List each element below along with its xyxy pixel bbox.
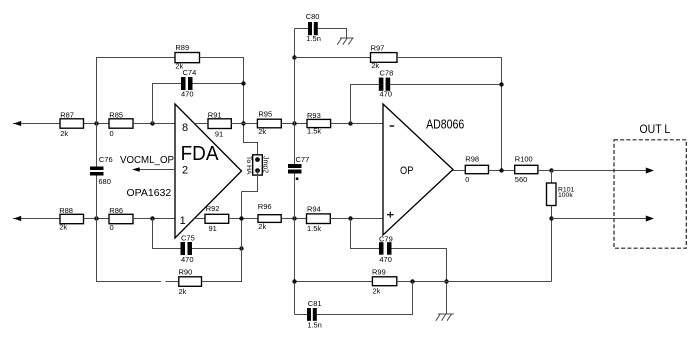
wire to AD8066 minus — [331, 123, 383, 125]
resistor R86 — [109, 206, 133, 232]
svg-text:R95: R95 — [258, 110, 272, 119]
svg-text:470: 470 — [379, 255, 392, 264]
capacitor C76 — [90, 155, 113, 186]
resistor R99 — [372, 267, 397, 295]
node junction R88/R86 — [94, 216, 98, 220]
node junction C75 drop — [150, 216, 154, 220]
svg-text:C81: C81 — [308, 299, 322, 308]
capacitor C78 — [379, 68, 393, 98]
svg-text:0: 0 — [465, 175, 469, 184]
svg-text:R93: R93 — [307, 111, 321, 120]
resistor R93 — [307, 111, 331, 136]
wire R99 right — [397, 281, 552, 283]
svg-text:FDA: FDA — [181, 142, 219, 165]
node junction C81 riser — [410, 279, 414, 283]
wire R90 left — [96, 281, 161, 283]
svg-text:C75: C75 — [181, 234, 195, 243]
svg-text:470: 470 — [181, 90, 194, 99]
svg-text:C78: C78 — [380, 68, 394, 77]
resistor R97 — [371, 43, 398, 70]
wire — [538, 170, 552, 172]
wire C78 left — [351, 85, 379, 124]
svg-text:1: 1 — [180, 215, 186, 227]
svg-text:R100: R100 — [515, 155, 533, 164]
arrow out upper — [646, 168, 654, 174]
node junction bottom vert — [239, 216, 243, 220]
wire C78 right — [390, 84, 501, 86]
wire out lower arrow — [552, 218, 649, 220]
op-amp U2 AD8066 — [383, 104, 453, 235]
svg-text:2k: 2k — [60, 129, 68, 138]
node junction R97 left — [292, 55, 296, 59]
resistor R85 — [109, 110, 133, 138]
wire R101 bottom lead — [551, 206, 553, 282]
svg-text:C76: C76 — [99, 155, 113, 164]
resistor R101 — [547, 183, 575, 206]
resistor R91 — [208, 110, 232, 138]
wire vertical x294 upper — [294, 29, 296, 165]
wire R90 left segment 2 — [166, 281, 179, 283]
node junction R98/R100 — [499, 168, 503, 172]
svg-text:100k: 100k — [558, 192, 573, 199]
svg-text:C80: C80 — [306, 12, 320, 21]
wire R91 left stub — [195, 123, 209, 125]
wire C81 left — [295, 314, 308, 316]
wire to AD8066 plus — [330, 218, 383, 220]
wire C81 right riser — [317, 282, 413, 315]
wire — [84, 218, 110, 220]
wire R92 left stub — [194, 218, 205, 220]
svg-text:OP: OP — [400, 165, 413, 177]
capacitor C81 — [307, 299, 322, 330]
arrow out lower — [646, 216, 654, 222]
svg-text:1.5n: 1.5n — [306, 34, 321, 43]
svg-text:AD8066: AD8066 — [426, 117, 464, 132]
capacitor C79 — [379, 234, 393, 264]
wire — [133, 218, 175, 220]
jumper Jmp2 — [245, 155, 268, 175]
node junction C74 drop — [150, 121, 154, 125]
svg-text:2k: 2k — [258, 222, 266, 231]
node junction C75/vert — [239, 246, 243, 250]
wire — [281, 123, 307, 125]
wire out upper arrow — [552, 170, 649, 172]
svg-text:R91: R91 — [208, 110, 222, 119]
resistor R94 — [307, 205, 331, 234]
resistor R87 — [60, 110, 84, 138]
svg-text:2k: 2k — [373, 286, 381, 295]
svg-text:C77: C77 — [296, 155, 310, 164]
svg-text:2k: 2k — [179, 287, 187, 296]
wire — [281, 218, 306, 220]
resistor R96 — [258, 202, 281, 231]
ground chassis bottom — [436, 314, 454, 321]
svg-text:R85: R85 — [109, 110, 123, 119]
node junction vert/top rail — [241, 121, 245, 125]
wire — [84, 123, 110, 125]
arrow top-left — [14, 121, 22, 126]
svg-text:470: 470 — [380, 90, 393, 99]
node OUT L dashed box — [614, 124, 686, 248]
wire bottom-left arrow line — [13, 218, 60, 220]
svg-text:R97: R97 — [371, 43, 385, 52]
resistor R92 — [205, 204, 229, 233]
ground chassis top — [337, 38, 353, 45]
wire vertical x294 lower — [294, 174, 296, 315]
wire — [229, 218, 258, 220]
wire — [231, 123, 257, 125]
capacitor C75 — [181, 234, 195, 265]
svg-text:R99: R99 — [372, 267, 386, 276]
wire top-left arrow line — [13, 123, 60, 125]
wire C75 left — [153, 219, 181, 249]
svg-text:R89: R89 — [175, 43, 189, 52]
svg-text:R96: R96 — [258, 202, 272, 211]
svg-text:R92: R92 — [206, 204, 220, 213]
wire VOCML_OP arrow line — [134, 169, 175, 171]
resistor R95 — [257, 110, 281, 136]
wire C80 right to ground — [318, 29, 347, 39]
svg-text:2k: 2k — [59, 223, 67, 232]
resistor R98 — [465, 155, 488, 184]
node junction lower out — [549, 216, 553, 220]
svg-text:C79: C79 — [379, 234, 393, 243]
wire R97 right — [397, 58, 502, 171]
wire C80 left — [295, 28, 309, 30]
resistor R88 — [59, 206, 83, 231]
wire R101 top lead — [551, 171, 553, 184]
svg-text:560: 560 — [515, 175, 528, 184]
wire R90 right — [202, 192, 242, 282]
arrow bottom-left — [14, 216, 22, 221]
wire C74 right — [193, 83, 244, 85]
svg-text:Jmp2: Jmp2 — [261, 156, 268, 173]
svg-text:1.5k: 1.5k — [307, 224, 321, 233]
wire jumper bottom — [242, 171, 258, 192]
svg-text:R90: R90 — [179, 268, 193, 277]
node junction C79/R99 — [444, 279, 448, 283]
svg-text:2: 2 — [182, 165, 188, 177]
node junction C77 top — [292, 121, 296, 125]
svg-text:2k: 2k — [258, 127, 266, 136]
svg-text:91: 91 — [215, 130, 223, 139]
node junction C77 bottom — [292, 216, 296, 220]
wire R99 left — [295, 281, 373, 283]
arrow VOCML_OP — [132, 167, 140, 172]
svg-text:To HA: To HA — [245, 156, 252, 175]
node junction C78 drop — [348, 121, 352, 125]
wire vertical x96 upper — [96, 58, 98, 167]
node junction R101 top — [549, 168, 553, 172]
resistor R89 — [175, 43, 200, 71]
wire vertical x96 lower — [96, 176, 98, 282]
node junction C74/vert — [241, 81, 245, 85]
svg-text:OPA1632: OPA1632 — [127, 187, 172, 199]
op-amp U1 FDA OPA1632 — [175, 104, 242, 238]
wire R89 left — [96, 57, 175, 59]
capacitor C80 — [306, 12, 321, 43]
svg-text:C74: C74 — [183, 68, 197, 77]
resistor R100 — [515, 155, 538, 184]
node junction R87/R85 — [94, 121, 98, 125]
svg-text:91: 91 — [209, 224, 217, 233]
wire C79 left — [351, 219, 380, 249]
capacitor C77 — [288, 155, 309, 180]
svg-text:0: 0 — [110, 223, 114, 232]
svg-text:OUT L: OUT L — [640, 124, 671, 136]
svg-text:VOCML_OP: VOCML_OP — [120, 155, 174, 166]
node junction C78/vert — [499, 82, 503, 86]
wire — [489, 170, 515, 172]
svg-text:0: 0 — [110, 129, 114, 138]
resistor R90 — [179, 268, 202, 297]
svg-text:1.5k: 1.5k — [307, 127, 321, 136]
wire C75 right — [192, 248, 242, 250]
node junction C79 drop — [348, 216, 352, 220]
svg-text:R88: R88 — [59, 206, 73, 215]
svg-text:8: 8 — [182, 122, 188, 134]
svg-text:R86: R86 — [109, 206, 123, 215]
wire — [133, 123, 175, 125]
capacitor C74 — [181, 68, 196, 99]
svg-text:R94: R94 — [307, 205, 321, 214]
svg-text:R98: R98 — [465, 155, 479, 164]
wire C74 left — [153, 84, 182, 124]
svg-text:470: 470 — [181, 255, 194, 264]
svg-text:R87: R87 — [60, 110, 74, 119]
wire C79 right — [392, 249, 447, 314]
wire R97 left — [295, 57, 371, 59]
svg-text:2k: 2k — [371, 61, 379, 70]
wire output apex to R98 — [453, 170, 465, 172]
node junction R99 left — [292, 279, 296, 283]
wire R89 right to corner — [200, 58, 258, 160]
svg-text:1.5n: 1.5n — [307, 321, 322, 330]
svg-text:680: 680 — [98, 177, 111, 186]
